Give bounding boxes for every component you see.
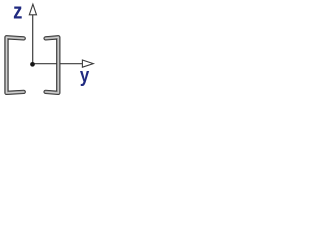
- svg-text:z: z: [13, 0, 22, 24]
- left channel wall highlight: [7, 37, 24, 93]
- background: [0, 0, 97, 97]
- right channel wall highlight: [46, 37, 59, 93]
- left channel outline: [7, 37, 24, 93]
- svg-text:y: y: [80, 64, 90, 87]
- y-axis arrowhead: [82, 60, 93, 67]
- z-axis shaft: [32, 15, 34, 65]
- y-axis shaft: [33, 63, 83, 65]
- z-axis arrowhead: [29, 4, 36, 15]
- left channel wall mid tone: [7, 37, 24, 93]
- centroid dot: [30, 62, 35, 67]
- right channel outline: [46, 37, 59, 93]
- right channel wall mid tone: [46, 37, 59, 93]
